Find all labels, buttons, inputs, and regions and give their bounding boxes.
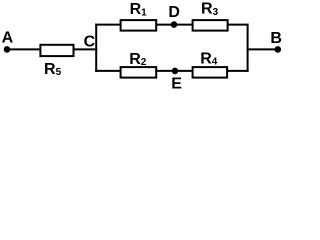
resistor R3 (193, 20, 228, 31)
svg-text:R2: R2 (129, 51, 147, 68)
svg-text:R4: R4 (200, 50, 218, 67)
wire E to R4 (175, 70, 193, 72)
svg-text:R5: R5 (44, 61, 62, 78)
wire R2 to E (156, 70, 175, 72)
wire to B (247, 48, 278, 50)
node B (270, 30, 282, 53)
resistor R5 (40, 45, 73, 56)
resistor R1 (121, 20, 157, 31)
wire left branch vertical (95, 24, 97, 72)
node D (168, 4, 180, 28)
svg-text:A: A (2, 30, 14, 47)
wire right branch vertical (247, 24, 249, 72)
resistor R2 (121, 67, 157, 78)
wire D to R3 (174, 24, 193, 26)
svg-text:B: B (270, 30, 282, 47)
wire C to R2 (95, 70, 121, 72)
wire R3 to B branch (228, 24, 249, 26)
svg-text:D: D (168, 4, 180, 21)
node C (84, 33, 96, 50)
wire A to R5 (7, 48, 41, 50)
svg-text:E: E (171, 75, 182, 92)
svg-text:R3: R3 (201, 1, 219, 18)
wire R1 to D (156, 24, 174, 26)
wire C to R1 (95, 24, 121, 26)
resistor R4 (193, 67, 228, 78)
wire R5 to C (74, 48, 98, 50)
svg-text:R1: R1 (130, 1, 148, 18)
node A (2, 30, 14, 53)
wire R4 to B branch (227, 70, 249, 72)
node E (171, 68, 182, 93)
svg-text:C: C (84, 33, 96, 50)
